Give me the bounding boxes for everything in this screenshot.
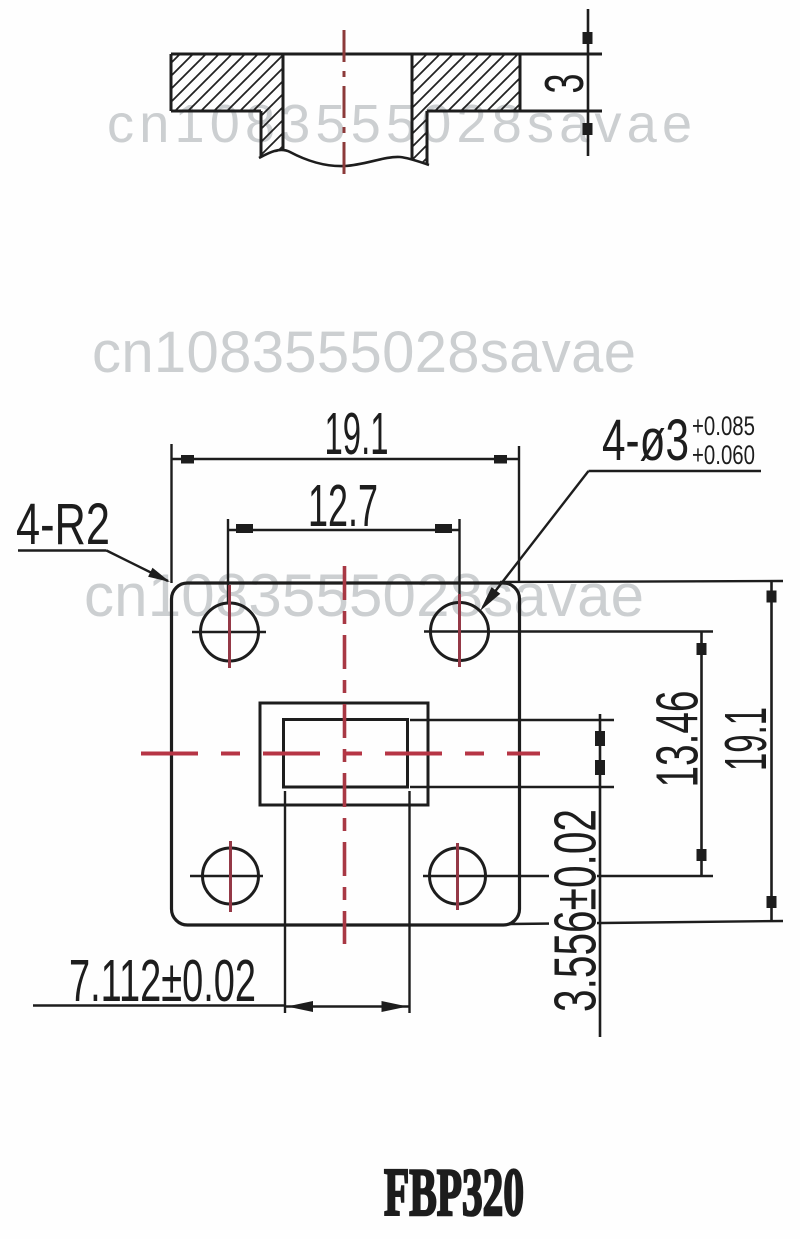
section bottom-left edge <box>171 110 261 113</box>
svg-text:cn1083555028savae: cn1083555028savae <box>92 320 636 385</box>
svg-text:3.556±0.02: 3.556±0.02 <box>542 809 608 1012</box>
dim 3 terminator bottom <box>583 123 593 135</box>
dim 13.46 line <box>700 632 703 877</box>
plate top edge extension right <box>500 581 783 582</box>
tube right wall outer <box>426 111 429 164</box>
tube right wall inner <box>411 54 414 160</box>
hole bottom-left v-centerline red <box>229 841 232 912</box>
dim 3 terminator top <box>583 32 593 44</box>
hatched section area <box>171 54 520 164</box>
dim 19.1 top: terminators <box>181 455 194 464</box>
dim 3.556 line <box>599 714 602 1037</box>
svg-text:3: 3 <box>533 74 595 94</box>
dim 19.1 right line <box>770 581 773 922</box>
tube left wall outer <box>260 111 263 157</box>
dim 13.46 terminators <box>697 643 707 655</box>
tube left wall inner <box>282 54 285 150</box>
section outline top edge + ext to dim 3 <box>171 53 602 56</box>
dim 7.112 underline <box>33 1004 285 1006</box>
dim 12.7: right ext <box>458 519 460 602</box>
dim 7.112 right ext <box>408 791 410 1013</box>
dim 7.112 left ext <box>284 791 286 1013</box>
dim 19.1 top: right ext <box>518 446 520 583</box>
svg-text:19.1: 19.1 <box>713 707 779 771</box>
hole top-left v-centerline red <box>228 585 231 668</box>
label 4-dia3 leader <box>483 471 589 607</box>
hole bottom-right h-centerline ext to 13.46 dim <box>423 875 713 877</box>
section bottom-right edge + ext to dim 3 <box>427 110 602 113</box>
dim 3.556 text mask <box>549 806 597 1015</box>
svg-text:12.7: 12.7 <box>308 473 378 539</box>
dim 7.112 line <box>285 1005 410 1008</box>
hole top-right v-centerline red <box>458 594 461 667</box>
waveguide aperture inner rect <box>284 720 408 788</box>
hole top-left h-centerline <box>192 631 266 633</box>
dim 12.7: line <box>228 529 460 532</box>
break line wavy <box>259 150 429 166</box>
svg-text:+0.085: +0.085 <box>692 411 755 441</box>
waveguide boss outer rect <box>260 703 428 805</box>
label 4-R2 leader <box>107 551 169 582</box>
svg-text:19.1: 19.1 <box>325 401 389 467</box>
dim 3 line <box>587 9 590 156</box>
dim 19.1 right terminators <box>767 591 777 603</box>
hole bottom-right v-centerline red <box>456 843 459 910</box>
svg-text:4-R2: 4-R2 <box>16 492 110 557</box>
label 4-dia3 underline <box>589 470 762 472</box>
plate outline rounded square <box>172 583 520 925</box>
plate bottom edge extension right <box>510 921 783 924</box>
svg-text:4-ø3: 4-ø3 <box>602 408 689 473</box>
dim 7.112 arrow left <box>287 1001 313 1012</box>
dim 19.1 top: left ext <box>170 444 172 583</box>
hole bottom-right circle <box>430 848 486 904</box>
section centerline red <box>343 30 346 178</box>
svg-text:7.112±0.02: 7.112±0.02 <box>69 948 256 1014</box>
svg-text:+0.060: +0.060 <box>692 440 755 470</box>
hole top-right circle <box>431 603 489 661</box>
dim 12.7: terminators <box>236 524 253 533</box>
label 4-R2 underline <box>18 549 107 551</box>
dim 3.556 top ext <box>410 719 614 721</box>
main vertical centerline red <box>343 566 347 944</box>
svg-text:FBP320: FBP320 <box>384 1154 524 1230</box>
dim 19.1 top: line <box>172 458 520 461</box>
svg-text:cn1083555028savae: cn1083555028savae <box>84 562 644 629</box>
dim 12.7: left ext <box>227 519 229 603</box>
dim 3.556 terminators <box>595 731 605 746</box>
hole bottom-left circle <box>203 848 259 904</box>
hole top-right h-centerline ext to 13.46 dim <box>424 630 713 632</box>
label 4-R2 arrowhead <box>148 568 170 582</box>
dim 7.112 arrow right <box>382 1001 408 1012</box>
section left edge <box>170 54 173 111</box>
hole top-left circle <box>201 603 259 661</box>
dim 3.556 bottom ext <box>410 786 614 788</box>
label 4-dia3 arrowhead <box>480 587 500 611</box>
section right edge <box>519 54 522 111</box>
main horizontal centerline red <box>141 752 540 756</box>
svg-text:13.46: 13.46 <box>645 691 711 788</box>
hole bottom-left h-centerline <box>190 875 263 877</box>
